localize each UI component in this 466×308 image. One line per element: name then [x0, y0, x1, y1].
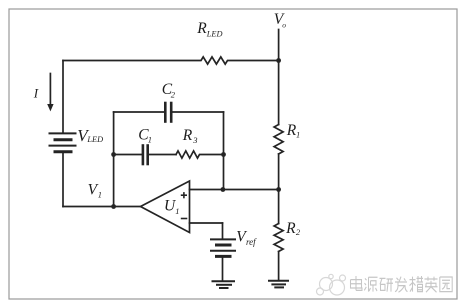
svg-text:2: 2 — [296, 227, 301, 237]
svg-text:R: R — [285, 220, 296, 237]
svg-text:3: 3 — [192, 135, 197, 145]
svg-text:1: 1 — [296, 130, 300, 140]
svg-text:LED: LED — [206, 29, 223, 38]
svg-text:R: R — [182, 127, 193, 144]
svg-text:R: R — [196, 20, 207, 37]
svg-text:2: 2 — [171, 89, 176, 99]
svg-text:1: 1 — [98, 189, 102, 199]
svg-text:I: I — [33, 85, 39, 100]
svg-text:ref: ref — [246, 237, 257, 247]
svg-text:1: 1 — [175, 206, 179, 216]
svg-text:LED: LED — [86, 135, 103, 144]
svg-text:1: 1 — [148, 134, 152, 144]
svg-text:o: o — [282, 21, 286, 30]
